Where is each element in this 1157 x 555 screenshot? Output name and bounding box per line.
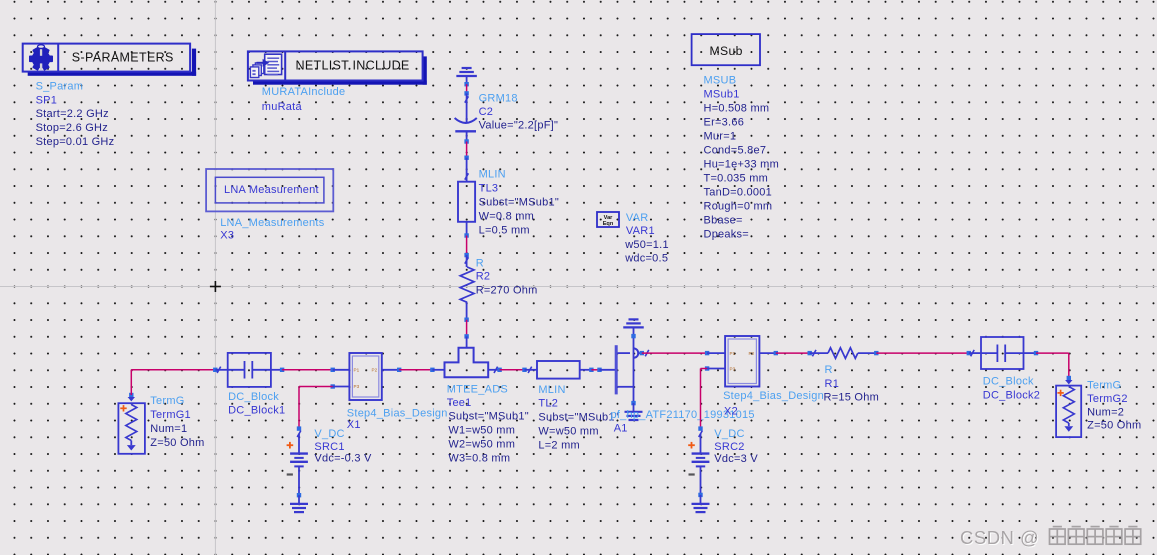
wire R1 to DC_Block2 xyxy=(858,352,877,354)
capacitor C2 GRM18 symbol xyxy=(455,118,477,123)
wire SRC2 to ground xyxy=(700,466,702,495)
wire TL3 to R2 xyxy=(466,222,468,236)
wire transistor source to ground xyxy=(631,401,635,405)
svg-text:X1: X1 xyxy=(347,419,361,431)
S-PARAMETERS controller SP1 box xyxy=(23,44,190,72)
S-PARAMETERS gear icon xyxy=(29,45,53,71)
svg-text:SP1: SP1 xyxy=(36,94,58,106)
CSDN watermark xyxy=(960,527,1039,549)
svg-text:Rough=0 mm: Rough=0 mm xyxy=(704,200,773,212)
svg-text:Er=3.66: Er=3.66 xyxy=(704,116,745,128)
svg-text:w50=1.1: w50=1.1 xyxy=(624,239,669,251)
wire DC_Block1 to X1 xyxy=(271,369,282,371)
svg-text:MURATAInclude: MURATAInclude xyxy=(262,86,346,98)
svg-text:Subst="MSub1": Subst="MSub1" xyxy=(538,412,618,424)
svg-text:Z=50 Ohm: Z=50 Ohm xyxy=(150,437,204,449)
svg-text:H=0.508 mm: H=0.508 mm xyxy=(704,102,770,114)
svg-text:TermG1: TermG1 xyxy=(150,409,191,421)
svg-text:GRM18: GRM18 xyxy=(479,93,518,105)
svg-text:Step=0.01 GHz: Step=0.01 GHz xyxy=(36,136,115,148)
svg-text:Cond=5.8e7: Cond=5.8e7 xyxy=(704,144,767,156)
NETLIST INCLUDE controller shadow xyxy=(253,81,427,85)
svg-text:Bbase=: Bbase= xyxy=(704,214,743,226)
svg-text:VAR1: VAR1 xyxy=(626,225,655,237)
origin crosshair marker xyxy=(210,286,221,288)
watermark CJK glyphs xyxy=(1050,527,1066,545)
svg-text:P1: P1 xyxy=(730,351,736,356)
DC source SRC1 symbol xyxy=(298,434,300,454)
transistor A1 pf_hp_ATF21170 symbol xyxy=(615,345,618,394)
svg-text:W2=w50 mm: W2=w50 mm xyxy=(448,439,515,451)
svg-text:Hu=1e+33 mm: Hu=1e+33 mm xyxy=(704,158,780,170)
wire TL2 to transistor gate xyxy=(580,369,592,371)
svg-text:X2: X2 xyxy=(724,406,738,418)
svg-text:Num=1: Num=1 xyxy=(150,423,187,435)
svg-text:TL2: TL2 xyxy=(538,398,558,410)
svg-text:muRata: muRata xyxy=(262,101,303,113)
svg-text:W1=w50 mm: W1=w50 mm xyxy=(448,425,515,437)
microstrip line TL2 MLIN symbol xyxy=(537,361,580,379)
resistor R1 symbol xyxy=(828,348,858,359)
svg-text:A1: A1 xyxy=(614,423,628,435)
ground below transistor xyxy=(625,411,643,413)
subcircuit X2 Step4_Bias_Design box xyxy=(725,336,759,387)
wire X2 P3 to SRC2 xyxy=(705,366,709,370)
svg-text:S_Param: S_Param xyxy=(36,81,84,93)
wire SRC1 to ground xyxy=(298,466,300,495)
svg-text:Step4_Bias_Design: Step4_Bias_Design xyxy=(723,390,824,402)
VAR VAR1 eqn box xyxy=(597,212,619,227)
svg-text:Subst="MSub1": Subst="MSub1" xyxy=(479,197,559,209)
LNA_Measurements X3 inner box xyxy=(215,177,324,203)
svg-text:Mur=1: Mur=1 xyxy=(704,130,737,142)
svg-text:VAR: VAR xyxy=(626,212,649,224)
svg-text:NETLIST INCLUDE: NETLIST INCLUDE xyxy=(296,59,410,73)
svg-text:TL3: TL3 xyxy=(479,183,499,195)
svg-text:DC_Block2: DC_Block2 xyxy=(983,390,1040,402)
svg-text:R2: R2 xyxy=(476,270,491,282)
svg-text:V_DC: V_DC xyxy=(714,428,744,440)
svg-text:V_DC: V_DC xyxy=(314,428,344,440)
svg-text:DC_Block1: DC_Block1 xyxy=(228,405,285,417)
svg-text:Tee1: Tee1 xyxy=(447,397,472,409)
S-PARAMETERS controller SP1 shadow xyxy=(28,72,196,76)
NETLIST INCLUDE controller box xyxy=(248,51,423,80)
resistor R2 symbol xyxy=(460,267,474,302)
svg-text:MTEE_ADS: MTEE_ADS xyxy=(447,384,508,396)
svg-text:wdc=0.5: wdc=0.5 xyxy=(624,252,668,264)
origin axis horizontal xyxy=(0,286,1157,288)
svg-text:DC_Block: DC_Block xyxy=(983,376,1034,388)
wire transistor drain to X2 xyxy=(640,351,644,355)
wire TermG1 to DC_Block1 xyxy=(129,393,133,397)
svg-text:SRC2: SRC2 xyxy=(714,441,744,453)
svg-text:Subst="MSub1": Subst="MSub1" xyxy=(448,411,528,423)
DC source SRC2 symbol xyxy=(700,434,702,454)
svg-text:P2: P2 xyxy=(372,368,378,373)
wire C2 to TL3 xyxy=(466,131,468,141)
MTEE Tee1 symbol xyxy=(445,348,489,378)
svg-text:Num=2: Num=2 xyxy=(1087,406,1124,418)
wire R2 to MTEE xyxy=(466,302,468,319)
svg-text:TermG2: TermG2 xyxy=(1087,393,1128,405)
svg-text:P1: P1 xyxy=(354,368,360,373)
wire DC_Block2 to TermG2 xyxy=(1024,352,1037,354)
svg-text:Dpeaks=: Dpeaks= xyxy=(704,228,749,240)
svg-text:Step4_Bias_Design: Step4_Bias_Design xyxy=(347,407,448,419)
wire X1 P2 to MTEE xyxy=(382,369,399,371)
svg-text:Z=50 Ohm: Z=50 Ohm xyxy=(1087,420,1141,432)
svg-text:C2: C2 xyxy=(479,106,494,118)
svg-text:LNA Measurement: LNA Measurement xyxy=(224,184,319,196)
svg-text:P3: P3 xyxy=(730,367,736,372)
svg-text:R=270 Ohm: R=270 Ohm xyxy=(476,284,538,296)
svg-text:TermG: TermG xyxy=(150,395,184,407)
svg-text:Stop=2.6 GHz: Stop=2.6 GHz xyxy=(36,122,108,134)
svg-text:W=w50 mm: W=w50 mm xyxy=(538,426,598,438)
svg-text:SRC1: SRC1 xyxy=(314,441,344,453)
svg-text:MSub: MSub xyxy=(710,44,743,58)
svg-text:L=2 mm: L=2 mm xyxy=(538,440,580,452)
ground flipped above C2 xyxy=(462,67,472,69)
S-PARAMETERS icon cell divider xyxy=(57,44,59,72)
NETLIST INCLUDE icon xyxy=(250,54,281,77)
ground flipped above transistor xyxy=(629,318,639,320)
subcircuit X1 Step4_Bias_Design box xyxy=(349,353,381,400)
svg-text:MLIN: MLIN xyxy=(538,384,565,396)
NETLIST INCLUDE icon cell divider xyxy=(284,51,286,80)
svg-text:Eqn: Eqn xyxy=(603,221,614,227)
terminal TermG1 symbol xyxy=(118,403,144,454)
svg-text:R: R xyxy=(825,364,833,376)
svg-text:L=0.5 mm: L=0.5 mm xyxy=(479,225,530,237)
wire MTEE to TL2 xyxy=(488,369,499,371)
svg-text:W=0.8 mm: W=0.8 mm xyxy=(479,211,534,223)
microstrip line TL3 MLIN symbol xyxy=(458,182,475,222)
LNA_Measurements X3 outer box xyxy=(206,169,333,211)
svg-text:Start=2.2 GHz: Start=2.2 GHz xyxy=(36,108,109,120)
svg-text:MLIN: MLIN xyxy=(479,169,506,181)
svg-text:P3: P3 xyxy=(354,384,360,389)
svg-text:Value="2.2[pF]": Value="2.2[pF]" xyxy=(479,120,559,132)
wire X1 P3 to SRC1 xyxy=(331,384,335,388)
svg-text:DC_Block: DC_Block xyxy=(228,391,279,403)
ground below SRC1 xyxy=(290,503,308,505)
ground below SRC2 xyxy=(692,503,710,505)
svg-text:R=15 Ohm: R=15 Ohm xyxy=(824,391,880,403)
svg-text:Vdc=-0.3 V: Vdc=-0.3 V xyxy=(314,453,372,465)
svg-text:R1: R1 xyxy=(825,378,840,390)
svg-text:TanD=0.0001: TanD=0.0001 xyxy=(704,186,773,198)
svg-text:Vdc=3 V: Vdc=3 V xyxy=(714,453,758,465)
svg-text:W3=0.8 mm: W3=0.8 mm xyxy=(448,453,510,465)
svg-text:R: R xyxy=(476,257,484,269)
svg-text:T=0.035 mm: T=0.035 mm xyxy=(704,172,769,184)
svg-text:LNA_Measurements: LNA_Measurements xyxy=(220,217,325,229)
MSUB MSub1 box xyxy=(692,34,760,65)
terminal TermG2 symbol xyxy=(1056,386,1081,438)
wire ground to C2 xyxy=(466,77,468,84)
wire X2 P2 to R1 xyxy=(759,352,775,354)
svg-text:MSub1: MSub1 xyxy=(704,88,740,100)
svg-text:P2: P2 xyxy=(749,351,755,356)
svg-text:TermG: TermG xyxy=(1087,380,1121,392)
svg-text:S-PARAMETERS: S-PARAMETERS xyxy=(72,50,174,64)
svg-text:MSUB: MSUB xyxy=(704,74,737,86)
DC_Block2 symbol xyxy=(981,337,1024,369)
origin axis vertical xyxy=(214,0,216,555)
DC_Block1 symbol xyxy=(228,353,271,387)
svg-text:X3: X3 xyxy=(220,230,234,242)
